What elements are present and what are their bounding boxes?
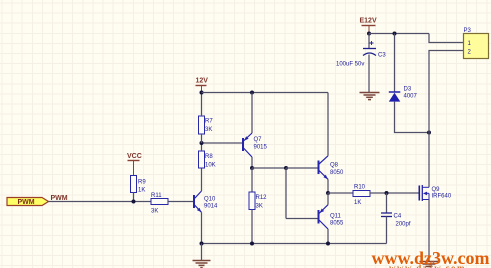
svg-text:R12: R12 xyxy=(256,195,268,201)
svg-text:8055: 8055 xyxy=(330,221,344,227)
wire D3 cathode up xyxy=(394,34,396,93)
svg-text:9014: 9014 xyxy=(204,204,218,210)
ground GND1 xyxy=(193,244,211,268)
wire R12 bottom to rail xyxy=(251,210,253,244)
junction R12 top node xyxy=(250,166,254,170)
wire R9 bottom xyxy=(133,193,135,202)
power port 12V xyxy=(196,78,209,93)
wire C3 bottom xyxy=(368,55,370,93)
junction rail Q10 xyxy=(200,242,204,246)
ground GND2 xyxy=(360,93,380,100)
svg-text:3K: 3K xyxy=(151,209,158,215)
ground GND3 xyxy=(420,262,439,268)
power port E12V xyxy=(360,18,377,34)
wire R8 top to node xyxy=(201,143,203,151)
pin 2 of P3 xyxy=(468,50,472,56)
svg-text:C3: C3 xyxy=(378,53,386,59)
wire PWM port to R11 xyxy=(49,201,152,203)
wire Q8 emitter down xyxy=(327,179,329,193)
wire to Q11 base xyxy=(286,218,319,220)
svg-text:R8: R8 xyxy=(205,154,213,160)
svg-text:R7: R7 xyxy=(205,119,213,125)
svg-text:P3: P3 xyxy=(464,28,472,34)
transistor Q7 xyxy=(243,133,268,157)
wire Q10 emitter to rail xyxy=(201,212,203,243)
power port VCC xyxy=(127,153,142,176)
wire to Q8 base xyxy=(286,167,319,169)
svg-text:3K: 3K xyxy=(256,204,263,210)
wire Q10 collector to R8 xyxy=(201,168,203,191)
svg-text:R10: R10 xyxy=(354,185,366,191)
junction R10/C4/gate xyxy=(385,191,389,195)
wire Q11 collector to rail xyxy=(327,229,329,244)
svg-text:8050: 8050 xyxy=(330,170,344,176)
svg-text:4007: 4007 xyxy=(404,94,418,100)
wire R7 bottom xyxy=(201,134,203,143)
svg-text:9015: 9015 xyxy=(254,145,268,151)
svg-text:C4: C4 xyxy=(394,214,402,220)
svg-text:1K: 1K xyxy=(138,188,145,194)
svg-text:IRF640: IRF640 xyxy=(432,194,452,200)
wire P3 pin2 to Q9 drain xyxy=(429,51,464,188)
wire branch down xyxy=(285,168,287,219)
wire D3 anode down xyxy=(395,102,430,133)
pin 1 of P3 xyxy=(468,41,472,47)
wire C3 top xyxy=(368,34,370,49)
wire Q8 collector to rail corner xyxy=(327,93,329,156)
wire Q7 collector down xyxy=(251,157,253,168)
svg-text:VCC: VCC xyxy=(127,153,142,160)
capacitor C3 xyxy=(336,41,386,68)
wire output to R10 xyxy=(328,192,353,194)
wire node to branch junction xyxy=(252,167,286,169)
watermark www.dz3w.com xyxy=(372,248,490,268)
junction D3/drain xyxy=(427,131,431,135)
wire ground rail xyxy=(202,243,387,245)
svg-text:R11: R11 xyxy=(151,193,162,199)
resistor R11 xyxy=(151,193,168,215)
net label PWM xyxy=(51,195,68,202)
junction Q7 emitter on rail xyxy=(250,91,254,95)
wire node to R12 xyxy=(251,168,253,192)
transistor Q10 xyxy=(194,191,218,212)
resistor R7 xyxy=(199,116,214,134)
wire E12V rail xyxy=(369,33,429,35)
transistor Q11 xyxy=(319,205,345,229)
svg-text:R9: R9 xyxy=(138,180,146,186)
svg-text:10K: 10K xyxy=(205,163,216,169)
connector P3 xyxy=(464,28,489,59)
wire 12V top rail xyxy=(202,92,329,94)
wire R7 top to 12V node xyxy=(201,93,203,117)
transistor Q8 xyxy=(319,156,345,180)
junction R7/R8/Q7 xyxy=(200,141,204,145)
port PWM xyxy=(7,198,49,207)
svg-text:Q10: Q10 xyxy=(204,197,216,203)
resistor R9 xyxy=(131,176,147,194)
wire C4 bottom to rail xyxy=(386,217,388,244)
svg-text:200pf: 200pf xyxy=(396,222,411,228)
junction base branch xyxy=(284,166,288,170)
diode D3 xyxy=(389,87,418,102)
junction rail Q11 xyxy=(326,242,330,246)
wire R11 to Q10 base xyxy=(168,201,194,203)
junction output node xyxy=(326,191,330,195)
resistor R10 xyxy=(353,185,370,207)
wire C4 top xyxy=(386,193,388,213)
junction rail R12 xyxy=(250,242,254,246)
wire Q11 emitter up xyxy=(327,193,329,205)
svg-text:1K: 1K xyxy=(354,200,361,206)
svg-text:www.dz3w.com: www.dz3w.com xyxy=(389,263,466,268)
svg-text:Q9: Q9 xyxy=(432,187,441,193)
svg-text:12V: 12V xyxy=(196,78,209,85)
svg-text:Q11: Q11 xyxy=(330,214,342,220)
capacitor C4 xyxy=(381,213,411,228)
mosfet Q9 xyxy=(419,185,452,201)
resistor R12 xyxy=(249,192,267,210)
junction E12V node xyxy=(367,32,371,36)
junction R9/PWM xyxy=(132,200,136,204)
svg-text:100uF 50v: 100uF 50v xyxy=(336,62,364,68)
svg-text:Q7: Q7 xyxy=(254,137,263,143)
svg-text:E12V: E12V xyxy=(360,18,377,25)
wire node to Q7 base xyxy=(202,142,244,144)
svg-text:3K: 3K xyxy=(205,127,212,133)
wire Q9 source down xyxy=(428,200,430,262)
junction D3 top xyxy=(393,32,397,36)
junction 12V node xyxy=(200,91,204,95)
wire Q7 emitter vertical xyxy=(251,93,253,134)
wire R10 to Q9 gate xyxy=(370,192,420,194)
svg-text:PWM: PWM xyxy=(17,199,34,206)
svg-text:Q8: Q8 xyxy=(330,163,339,169)
svg-text:D3: D3 xyxy=(404,87,412,93)
wire corner to P3 pin1 xyxy=(429,34,464,43)
resistor R8 xyxy=(199,151,216,169)
